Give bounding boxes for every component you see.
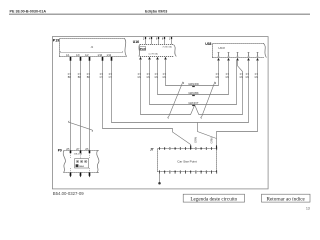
svg-text:0.5: 0.5	[100, 74, 104, 76]
wire U38-5 to J7	[217, 61, 258, 149]
J7 top ticks	[160, 147, 217, 150]
svg-text:0.5: 0.5	[78, 74, 82, 76]
svg-text:0.5: 0.5	[255, 74, 259, 76]
cable label GRN/RD	[188, 82, 199, 87]
cable label GRN/VT	[188, 101, 199, 106]
header rule	[9, 13, 310, 15]
wire P19-1 to P9	[70, 61, 72, 151]
P9 top pins	[71, 151, 90, 154]
U16 top pin labels	[143, 37, 171, 40]
P9 pin labels	[66, 149, 89, 151]
svg-text:7x 80 mA: 7x 80 mA	[162, 45, 172, 48]
svg-text:0.5: 0.5	[216, 74, 220, 76]
U38 bottom pin arrows	[217, 58, 259, 61]
P19 pins	[71, 57, 112, 61]
U16 PLD label	[140, 47, 146, 51]
wire P19-3 to P9	[89, 61, 91, 151]
connector P19	[60, 39, 127, 57]
svg-text:J2: J2	[91, 45, 94, 49]
twist slash right	[201, 82, 216, 118]
svg-text:MAX: MAX	[79, 165, 84, 168]
svg-text:B54.00-0327-09: B54.00-0327-09	[53, 191, 84, 196]
svg-text:GRN/VT: GRN/VT	[188, 101, 199, 105]
svg-text:GRN/BK: GRN/BK	[188, 91, 199, 95]
wire labels P19	[68, 74, 113, 79]
svg-text:U38: U38	[205, 42, 211, 46]
svg-text:13: 13	[306, 206, 310, 210]
svg-text:0.5: 0.5	[138, 74, 142, 76]
cable label GRN/BK	[188, 91, 199, 96]
svg-text:0.5: 0.5	[68, 74, 72, 76]
svg-text:GN: GN	[162, 77, 166, 79]
svg-text:P19: P19	[53, 38, 59, 42]
svg-text:GN: GN	[154, 77, 158, 79]
svg-text:6: 6	[156, 37, 158, 40]
wire bus2	[158, 60, 229, 95]
J7 entry pin right	[216, 145, 218, 148]
svg-text:0.5: 0.5	[109, 74, 113, 76]
U16 bottom pin arrows	[139, 57, 167, 60]
svg-text:0.5: 0.5	[147, 74, 151, 76]
J7 bottom ticks	[160, 170, 217, 173]
svg-text:0.5: 0.5	[155, 74, 159, 76]
svg-text:J7: J7	[150, 148, 154, 152]
P9 internal dashed links	[71, 153, 90, 172]
svg-text:GN: GN	[254, 77, 258, 79]
P9 bottom pins	[71, 173, 90, 176]
U16 top pin ticks	[146, 37, 172, 39]
wire CAN line with tent	[141, 60, 243, 115]
svg-text:Car Star Point: Car Star Point	[177, 159, 197, 163]
ground wire	[159, 174, 161, 182]
wire P19-4 lower bus	[103, 61, 191, 149]
svg-text:8: 8	[162, 37, 164, 40]
twist slash left	[168, 82, 184, 118]
svg-text:Retornar ao índice: Retornar ao índice	[267, 196, 306, 202]
svg-text:GRN/RD: GRN/RD	[188, 82, 199, 86]
U16 top pin wires	[146, 39, 172, 44]
svg-text:Edição 09/03: Edição 09/03	[145, 9, 167, 13]
ground point	[158, 182, 161, 185]
svg-text:PE 38.00-B-0030-01A: PE 38.00-B-0030-01A	[10, 9, 47, 13]
svg-text:PLD: PLD	[140, 47, 146, 51]
wire bus3	[150, 60, 237, 105]
svg-text:BR: BR	[78, 77, 82, 79]
svg-text:2: 2	[143, 37, 145, 40]
svg-text:1/12: 1/12	[106, 54, 111, 57]
svg-text:0.5: 0.5	[226, 74, 230, 76]
wire labels U38	[215, 74, 258, 79]
svg-text:GN: GN	[225, 77, 229, 79]
svg-text:GN: GN	[245, 77, 249, 79]
svg-text:BR: BR	[87, 77, 91, 79]
svg-text:GN: GN	[146, 77, 150, 79]
svg-text:Legenda deste circuito: Legenda deste circuito	[190, 196, 237, 202]
svg-text:P9: P9	[58, 149, 62, 153]
return button	[262, 194, 311, 202]
svg-text:GRN: GRN	[193, 137, 197, 143]
wire bus1	[166, 60, 219, 86]
svg-text:15A 25A: 15A 25A	[74, 152, 83, 155]
svg-text:1/10: 1/10	[97, 54, 102, 57]
wire branch to J7	[198, 123, 217, 139]
svg-text:1: 1	[169, 37, 171, 40]
J7 entry pin left	[190, 145, 192, 148]
svg-text:GN: GN	[215, 77, 219, 79]
svg-text:0.5: 0.5	[246, 74, 250, 76]
wires	[68, 60, 257, 151]
svg-text:GN: GN	[239, 77, 243, 79]
U38 pin number glyphs	[218, 53, 220, 57]
svg-text:U16: U16	[133, 40, 139, 44]
svg-text:UCV: UCV	[218, 46, 225, 50]
svg-text:1x 78 mA: 1x 78 mA	[148, 52, 158, 55]
svg-text:0.5: 0.5	[240, 74, 244, 76]
svg-text:GY: GY	[100, 77, 104, 79]
svg-text:GY: GY	[109, 77, 113, 79]
vertical wire label near J7 right	[210, 137, 214, 143]
twist slash P19 wires	[68, 121, 92, 131]
vertical wire label near J7 left	[193, 137, 197, 143]
P9 icon box	[75, 159, 89, 168]
svg-text:4: 4	[149, 37, 151, 40]
svg-text:GRN: GRN	[210, 137, 214, 143]
svg-text:0.5: 0.5	[87, 74, 91, 76]
schematic frame	[52, 37, 268, 189]
P19 pin labels	[66, 54, 112, 57]
svg-text:BR: BR	[68, 77, 72, 79]
wire labels U16	[137, 74, 166, 79]
P19 inner bar	[61, 51, 123, 53]
wire P19-5 lower bus	[112, 61, 249, 123]
wire P19-2 to P9	[80, 61, 82, 151]
legend button	[183, 194, 244, 202]
svg-text:0.5: 0.5	[163, 74, 167, 76]
svg-text:GN: GN	[137, 77, 141, 79]
